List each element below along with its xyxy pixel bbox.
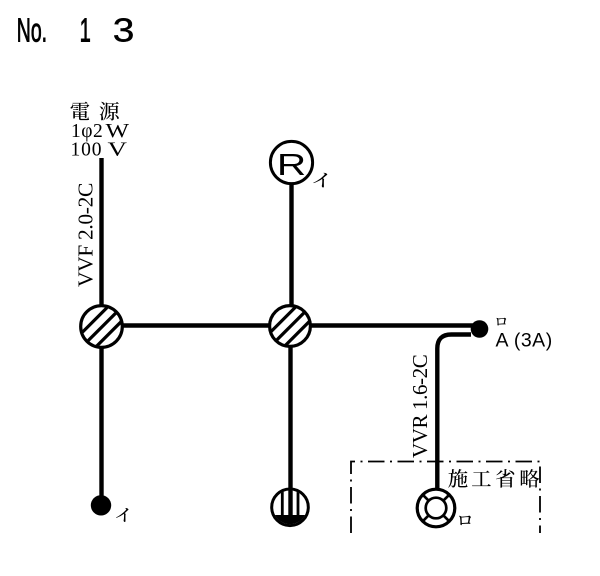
svg-text:VVF 2.0-2C: VVF 2.0-2C <box>73 183 97 287</box>
svg-text:3: 3 <box>113 11 135 49</box>
svg-text:V: V <box>108 140 128 161</box>
svg-text:100: 100 <box>71 140 103 161</box>
svg-text:1: 1 <box>80 11 91 49</box>
svg-text:R: R <box>277 148 306 182</box>
svg-text:VVR 1.6-2C: VVR 1.6-2C <box>408 355 432 458</box>
svg-text:A (3A): A (3A) <box>496 330 553 352</box>
svg-text:No.: No. <box>17 11 47 49</box>
